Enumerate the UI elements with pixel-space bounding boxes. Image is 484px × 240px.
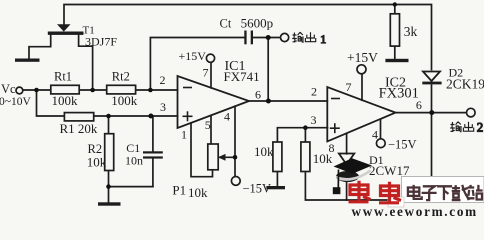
svg-text:3DJ7F: 3DJ7F [85, 35, 117, 49]
svg-text:Rt1: Rt1 [54, 70, 72, 84]
svg-text:10n: 10n [125, 154, 143, 168]
svg-text:5600p: 5600p [241, 16, 274, 31]
svg-text:−15V: −15V [388, 138, 417, 152]
svg-text:2CW17: 2CW17 [369, 163, 410, 178]
svg-text:8: 8 [329, 141, 335, 155]
svg-text:2CK19: 2CK19 [446, 76, 484, 91]
svg-text:3: 3 [160, 100, 166, 114]
svg-text:10k: 10k [87, 155, 107, 170]
svg-text:3k: 3k [404, 24, 418, 39]
svg-text:10k: 10k [188, 185, 208, 200]
svg-text:Vc: Vc [1, 82, 16, 96]
svg-text:5: 5 [205, 118, 211, 132]
svg-text:3: 3 [311, 113, 317, 127]
svg-text:R1 20k: R1 20k [60, 121, 98, 136]
svg-text:6: 6 [416, 98, 422, 112]
svg-text:100k: 100k [52, 93, 79, 108]
svg-text:Ct: Ct [220, 17, 232, 31]
svg-text:1: 1 [181, 128, 187, 142]
svg-text:2: 2 [477, 120, 484, 135]
svg-text:6: 6 [255, 88, 261, 102]
svg-text:P1: P1 [172, 183, 186, 198]
svg-text:+15V: +15V [179, 49, 207, 63]
svg-text:4: 4 [224, 110, 230, 124]
svg-text:7: 7 [346, 80, 352, 94]
svg-text:7: 7 [203, 66, 209, 80]
svg-text:www.eeworm.com: www.eeworm.com [352, 204, 478, 217]
svg-text:4: 4 [372, 128, 378, 142]
svg-text:100k: 100k [111, 93, 138, 108]
svg-text:10k: 10k [254, 144, 274, 159]
svg-text:FX741: FX741 [224, 69, 260, 84]
svg-text:0~10V: 0~10V [0, 96, 31, 108]
svg-text:+15V: +15V [347, 50, 378, 65]
svg-text:FX301: FX301 [379, 86, 419, 102]
svg-text:Rt2: Rt2 [112, 70, 130, 84]
svg-text:2: 2 [160, 73, 166, 87]
svg-text:−15V: −15V [243, 181, 272, 195]
svg-text:2: 2 [311, 85, 317, 99]
svg-text:1: 1 [320, 32, 326, 46]
